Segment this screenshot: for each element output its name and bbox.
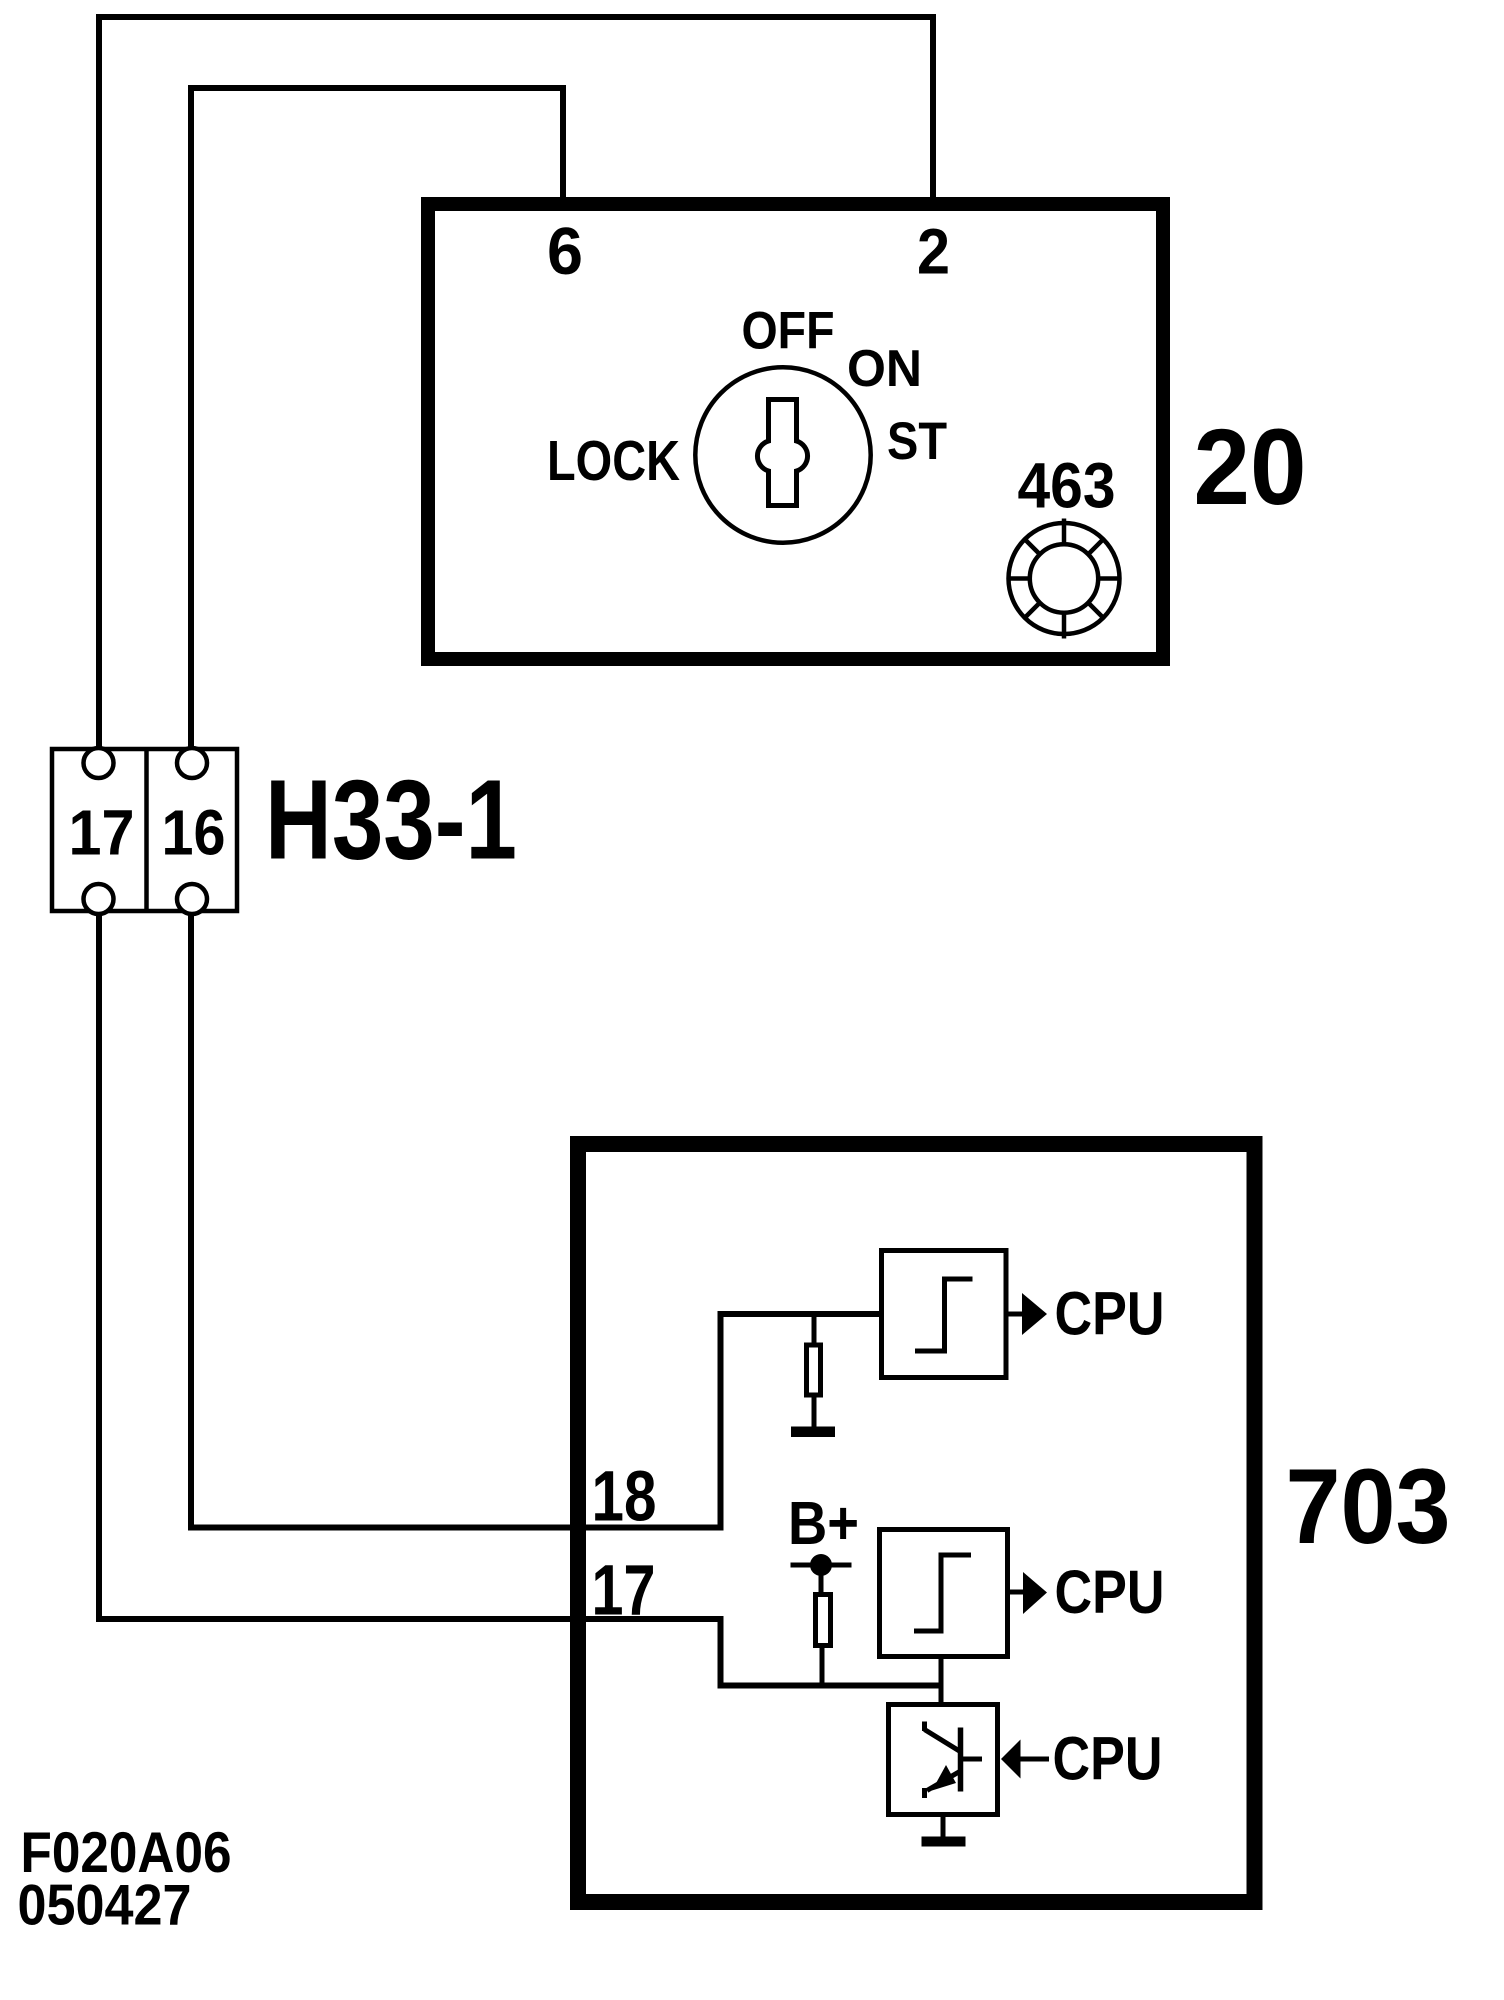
svg-text:H33-1: H33-1 bbox=[265, 757, 517, 883]
svg-text:OFF: OFF bbox=[742, 302, 835, 361]
svg-text:B+: B+ bbox=[788, 1489, 859, 1558]
svg-text:CPU: CPU bbox=[1055, 1558, 1165, 1626]
svg-text:703: 703 bbox=[1286, 1446, 1451, 1566]
svg-text:CPU: CPU bbox=[1055, 1280, 1165, 1348]
svg-text:17: 17 bbox=[592, 1552, 656, 1631]
svg-text:17: 17 bbox=[69, 797, 135, 869]
svg-text:463: 463 bbox=[1018, 450, 1116, 522]
svg-text:16: 16 bbox=[162, 797, 226, 869]
svg-text:ST: ST bbox=[887, 412, 947, 471]
svg-text:ON: ON bbox=[847, 340, 922, 398]
svg-text:LOCK: LOCK bbox=[547, 429, 680, 493]
svg-text:050427: 050427 bbox=[18, 1874, 192, 1938]
svg-text:6: 6 bbox=[547, 215, 583, 289]
svg-text:20: 20 bbox=[1194, 406, 1307, 527]
svg-text:CPU: CPU bbox=[1053, 1725, 1163, 1793]
svg-text:18: 18 bbox=[592, 1458, 657, 1537]
svg-text:2: 2 bbox=[917, 216, 950, 288]
